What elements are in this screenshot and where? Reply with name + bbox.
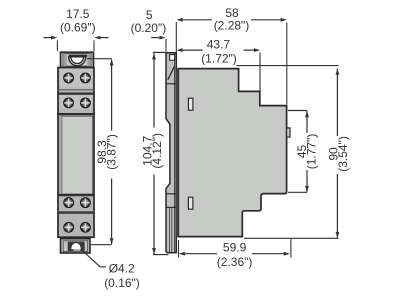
- svg-text:(0.16"): (0.16"): [104, 276, 140, 290]
- clip spring white bowl: [71, 57, 84, 64]
- dimension 104.7 (4.12") total height, side view: [140, 52, 168, 254]
- clip spring outer arc: [69, 57, 86, 66]
- vent slot lower: [188, 197, 193, 209]
- dimension 59.9 (2.36") bottom depth: [179, 239, 291, 270]
- dimension 45 (1.77") rear face height: [288, 111, 318, 193]
- leader line for 4.2mm hole: [83, 251, 107, 267]
- svg-text:(2.36"): (2.36"): [217, 255, 253, 269]
- dimension 98.3 (3.87") height, front view: [87, 59, 118, 245]
- svg-text:17.5: 17.5: [66, 7, 90, 21]
- screw T2: [81, 73, 91, 83]
- front view bottom clip block with 4.2mm hole: [61, 239, 91, 253]
- svg-text:104.7(4.12"): 104.7(4.12"): [140, 133, 164, 169]
- svg-text:59.9: 59.9: [223, 241, 247, 255]
- svg-text:5: 5: [146, 8, 153, 22]
- screw T1: [64, 73, 74, 83]
- screw B2: [81, 198, 91, 208]
- clip spring top bar: [69, 55, 87, 57]
- dimension 5 (0.20") bezel thickness: [131, 8, 167, 52]
- svg-text:(2.28"): (2.28"): [214, 19, 250, 33]
- front view lower terminal block: [58, 195, 94, 237]
- dimension 90 (3.54") body height: [237, 66, 350, 239]
- dimension 58 (2.28") total depth: [176, 6, 286, 105]
- front view top DIN clip housing: [61, 52, 94, 67]
- svg-text:(0.20"): (0.20"): [131, 21, 167, 35]
- screw B4: [81, 222, 91, 232]
- rear DIN latch bump: [287, 128, 290, 137]
- screw T3: [64, 98, 74, 108]
- svg-text:(0.69"): (0.69"): [60, 21, 96, 35]
- screw B3: [64, 222, 74, 232]
- svg-text:(1.72"): (1.72"): [201, 52, 237, 66]
- dimension 17.5 (0.69") width, front view: [44, 7, 109, 51]
- dimension label diameter 4.2 (0.16"): [104, 262, 140, 290]
- svg-text:Ø4.2: Ø4.2: [109, 262, 135, 276]
- dimension 43.7 (1.72") body depth: [177, 37, 261, 91]
- screw B1: [64, 198, 74, 208]
- side view front bezel strip with DIN clip: [166, 53, 176, 253]
- body front joint band: [176, 69, 178, 237]
- vent slot upper: [188, 98, 193, 110]
- front view middle body: [58, 114, 94, 195]
- screw T4: [81, 98, 91, 108]
- front view upper terminal block: [58, 68, 94, 114]
- side view main body profile: [176, 69, 290, 237]
- svg-text:43.7: 43.7: [207, 37, 231, 51]
